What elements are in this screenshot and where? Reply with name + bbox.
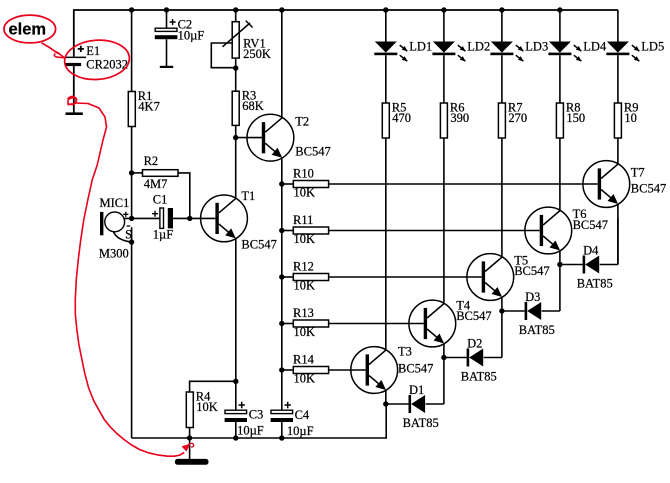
svg-text:T2: T2 <box>295 115 309 129</box>
svg-text:D4: D4 <box>583 243 599 257</box>
svg-text:10µF: 10µF <box>237 423 264 437</box>
svg-text:BAT85: BAT85 <box>403 416 439 430</box>
svg-text:MIC1: MIC1 <box>100 196 130 210</box>
svg-text:BC547: BC547 <box>456 309 491 323</box>
svg-text:10K: 10K <box>294 325 316 339</box>
svg-text:10: 10 <box>624 111 637 125</box>
svg-text:C3: C3 <box>249 408 264 422</box>
svg-text:150: 150 <box>566 111 585 125</box>
svg-text:elem: elem <box>9 21 47 39</box>
svg-text:C4: C4 <box>295 408 310 422</box>
svg-text:R11: R11 <box>293 213 313 227</box>
svg-text:BC547: BC547 <box>631 181 666 195</box>
svg-text:BAT85: BAT85 <box>519 323 555 337</box>
svg-text:LD1: LD1 <box>409 40 432 54</box>
svg-text:10K: 10K <box>294 232 316 246</box>
svg-text:E1: E1 <box>86 44 100 58</box>
svg-text:R13: R13 <box>293 306 314 320</box>
svg-text:R14: R14 <box>293 353 315 367</box>
svg-text:LD4: LD4 <box>583 40 607 54</box>
svg-text:BAT85: BAT85 <box>461 370 497 384</box>
svg-text:D3: D3 <box>525 290 540 304</box>
svg-text:R10: R10 <box>293 167 314 181</box>
svg-text:LD3: LD3 <box>525 40 548 54</box>
svg-text:BC547: BC547 <box>573 218 608 232</box>
svg-text:10K: 10K <box>294 279 316 293</box>
svg-text:CR2032: CR2032 <box>86 57 128 71</box>
svg-text:BC547: BC547 <box>241 238 276 252</box>
svg-text:BC547: BC547 <box>295 145 330 159</box>
svg-text:T7: T7 <box>631 166 645 180</box>
svg-text:BC547: BC547 <box>514 264 549 278</box>
svg-text:4M7: 4M7 <box>144 177 168 191</box>
svg-text:C1: C1 <box>153 192 168 206</box>
svg-text:470: 470 <box>392 111 411 125</box>
svg-text:R12: R12 <box>293 260 314 274</box>
svg-text:BC547: BC547 <box>398 361 433 375</box>
svg-text:D1: D1 <box>409 383 424 397</box>
svg-text:1µF: 1µF <box>153 227 173 241</box>
svg-text:10K: 10K <box>196 400 218 414</box>
svg-text:10K: 10K <box>294 186 316 200</box>
svg-text:390: 390 <box>450 111 469 125</box>
svg-text:T3: T3 <box>398 344 412 358</box>
svg-text:10µF: 10µF <box>287 424 314 438</box>
svg-text:R2: R2 <box>144 154 159 168</box>
svg-text:68K: 68K <box>242 99 264 113</box>
svg-text:LD5: LD5 <box>641 40 664 54</box>
svg-text:10K: 10K <box>294 372 316 386</box>
svg-text:270: 270 <box>508 111 527 125</box>
svg-text:LD2: LD2 <box>467 40 490 54</box>
svg-text:D2: D2 <box>467 336 482 350</box>
svg-text:T1: T1 <box>241 189 255 203</box>
svg-text:10µF: 10µF <box>178 29 205 43</box>
svg-text:250K: 250K <box>243 47 271 61</box>
svg-text:BAT85: BAT85 <box>577 277 613 291</box>
svg-text:M300: M300 <box>99 246 129 260</box>
svg-text:4K7: 4K7 <box>138 100 160 114</box>
